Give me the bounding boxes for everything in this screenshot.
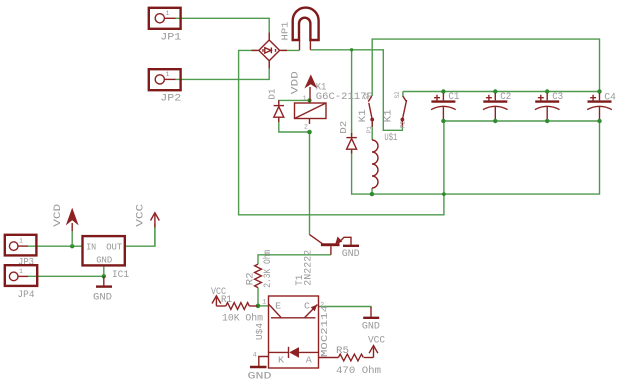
wire capacitor bottom rail	[443, 120, 599, 122]
wire D1 anode to relay pin2 node	[279, 119, 310, 132]
junction node R1 R2 opto	[256, 304, 261, 309]
svg-text:R5: R5	[336, 346, 349, 357]
resistor R1 10K	[211, 287, 263, 325]
svg-text:JP3: JP3	[18, 257, 34, 268]
svg-text:S2: S2	[394, 91, 401, 98]
svg-text:K: K	[278, 356, 285, 366]
wire D2 anode to L1 net and right loop	[352, 121, 600, 194]
svg-text:GND: GND	[248, 372, 272, 383]
svg-text:D2: D2	[339, 121, 349, 134]
svg-text:VCD: VCD	[53, 204, 64, 227]
resistor R2 2.3K	[246, 250, 274, 288]
svg-text:2N2222: 2N2222	[304, 250, 315, 286]
ground at optocoupler C	[362, 307, 380, 333]
svg-text:IN: IN	[86, 243, 96, 253]
svg-text:JP2: JP2	[160, 94, 181, 105]
capacitor C2	[483, 92, 511, 119]
supply VDD arrow	[291, 71, 318, 100]
junction node C3 top	[545, 89, 549, 93]
svg-text:2.3K Ohm: 2.3K Ohm	[262, 250, 274, 288]
svg-text:A: A	[306, 356, 313, 366]
svg-text:R2: R2	[246, 272, 257, 285]
wire switch K1-1 to L1	[371, 120, 373, 141]
svg-text:GND: GND	[96, 255, 112, 265]
svg-text:U$1: U$1	[384, 132, 397, 144]
wire IC1 OUT to VCC	[125, 224, 155, 246]
svg-text:K1: K1	[384, 109, 395, 122]
svg-text:VCC: VCC	[368, 336, 385, 347]
svg-text:C1: C1	[448, 92, 459, 103]
junction node C1 top	[441, 89, 445, 93]
svg-text:D1: D1	[268, 89, 278, 100]
diode D2	[339, 121, 357, 154]
svg-text:10K Ohm: 10K Ohm	[222, 313, 263, 325]
connector JP2	[149, 69, 182, 104]
wire JP4 to GND node	[28, 275, 104, 277]
junction node C1 bottom	[441, 119, 445, 123]
wire node to D2 cathode	[351, 50, 353, 136]
connector JP3	[5, 235, 37, 268]
svg-text:1: 1	[19, 238, 23, 245]
inductor L1	[372, 140, 378, 188]
connector JP1	[149, 8, 182, 44]
svg-text:K1: K1	[358, 109, 369, 122]
svg-text:VCC: VCC	[135, 204, 146, 227]
transistor T1	[295, 235, 351, 286]
svg-text:HP1: HP1	[281, 22, 291, 41]
junction node VCD	[70, 244, 74, 248]
wire VDD node to D1	[279, 100, 310, 104]
junction node C4 top	[597, 89, 601, 93]
diode D1	[268, 89, 285, 122]
wire base T1 to R2	[258, 255, 331, 264]
wire L1 bottom	[371, 188, 373, 194]
wire relay pin2 to transistor collector	[309, 132, 311, 235]
capacitor C1	[431, 92, 459, 119]
svg-text:1: 1	[19, 268, 23, 275]
svg-text:1: 1	[303, 95, 307, 102]
resistor R5 470	[319, 346, 382, 377]
svg-text:470 Ohm: 470 Ohm	[336, 365, 381, 377]
ground at T1 emitter	[342, 246, 360, 260]
buzzer HP1	[281, 8, 319, 51]
ground at optocoupler K	[248, 357, 272, 383]
svg-text:C2: C2	[500, 92, 511, 103]
connector JP4	[5, 265, 37, 301]
svg-text:C: C	[304, 302, 311, 312]
svg-text:VDD: VDD	[291, 71, 302, 94]
svg-text:GND: GND	[342, 249, 360, 260]
wire R2 bottom to node	[257, 288, 259, 306]
wire capacitor top rail	[403, 92, 600, 98]
supply VCC arrow at IC1	[135, 204, 159, 246]
svg-text:GND: GND	[93, 293, 112, 304]
junction node right cross	[442, 192, 446, 196]
svg-text:JP4: JP4	[18, 290, 35, 301]
junction node relay pin2	[307, 130, 312, 135]
supply VCC arrow at R1	[212, 296, 221, 306]
optocoupler U$4	[253, 296, 330, 368]
relay contact K1-1	[358, 93, 374, 134]
wire optocoupler C pin to GND	[319, 307, 372, 309]
wire top line to switch K1-1	[372, 39, 599, 96]
relay coil K1	[295, 83, 373, 131]
capacitor C3	[535, 92, 563, 119]
junction node C4 bottom	[597, 119, 601, 123]
svg-text:1: 1	[262, 299, 266, 306]
supply VCC arrow at R5	[368, 336, 385, 358]
svg-text:IC1: IC1	[112, 270, 129, 281]
wire node to optocoupler E pin	[258, 305, 269, 307]
svg-text:S1: S1	[363, 93, 370, 100]
svg-text:JP1: JP1	[160, 32, 181, 43]
svg-text:C4: C4	[604, 92, 616, 103]
svg-text:1: 1	[166, 71, 170, 78]
svg-text:4: 4	[253, 352, 257, 359]
svg-text:P1: P1	[366, 126, 373, 133]
relay contact K1-2 (U$1)	[384, 91, 407, 143]
supply VCD arrow	[53, 204, 78, 246]
wire bridge minus to left rail and bottom run	[239, 50, 444, 214]
svg-text:1: 1	[166, 10, 170, 17]
wire JP2 to bridge AC2	[175, 61, 269, 80]
rectifier bridge B1	[252, 33, 288, 69]
wire IC1 GND stub	[103, 265, 105, 276]
svg-text:OUT: OUT	[106, 243, 123, 253]
wire JP3 to IC1 IN	[28, 245, 83, 247]
svg-text:U$4: U$4	[255, 323, 265, 340]
junction node IC1 GND	[102, 274, 106, 278]
wire JP1 to bridge AC1	[175, 18, 269, 40]
junction node L1 bottom	[370, 192, 374, 196]
svg-text:E: E	[275, 302, 281, 312]
svg-text:C3: C3	[552, 92, 563, 103]
ground under IC1	[93, 276, 112, 303]
wire bridge plus to buzzer	[282, 49, 300, 51]
svg-text:2: 2	[304, 123, 308, 130]
svg-text:P2: P2	[400, 121, 407, 128]
svg-text:R1: R1	[221, 295, 232, 306]
capacitor C4	[587, 92, 616, 119]
junction node C2 bottom	[493, 119, 497, 123]
junction node C3 bottom	[545, 119, 549, 123]
junction node VDD relay	[307, 98, 311, 102]
wire buzzer right pin to switch K1-2	[310, 50, 402, 131]
svg-text:GND: GND	[362, 322, 380, 333]
junction node C2 top	[493, 89, 497, 93]
svg-text:MOC2114: MOC2114	[320, 305, 330, 357]
junction node D2 top	[350, 48, 353, 51]
voltage regulator IC1	[83, 236, 130, 281]
